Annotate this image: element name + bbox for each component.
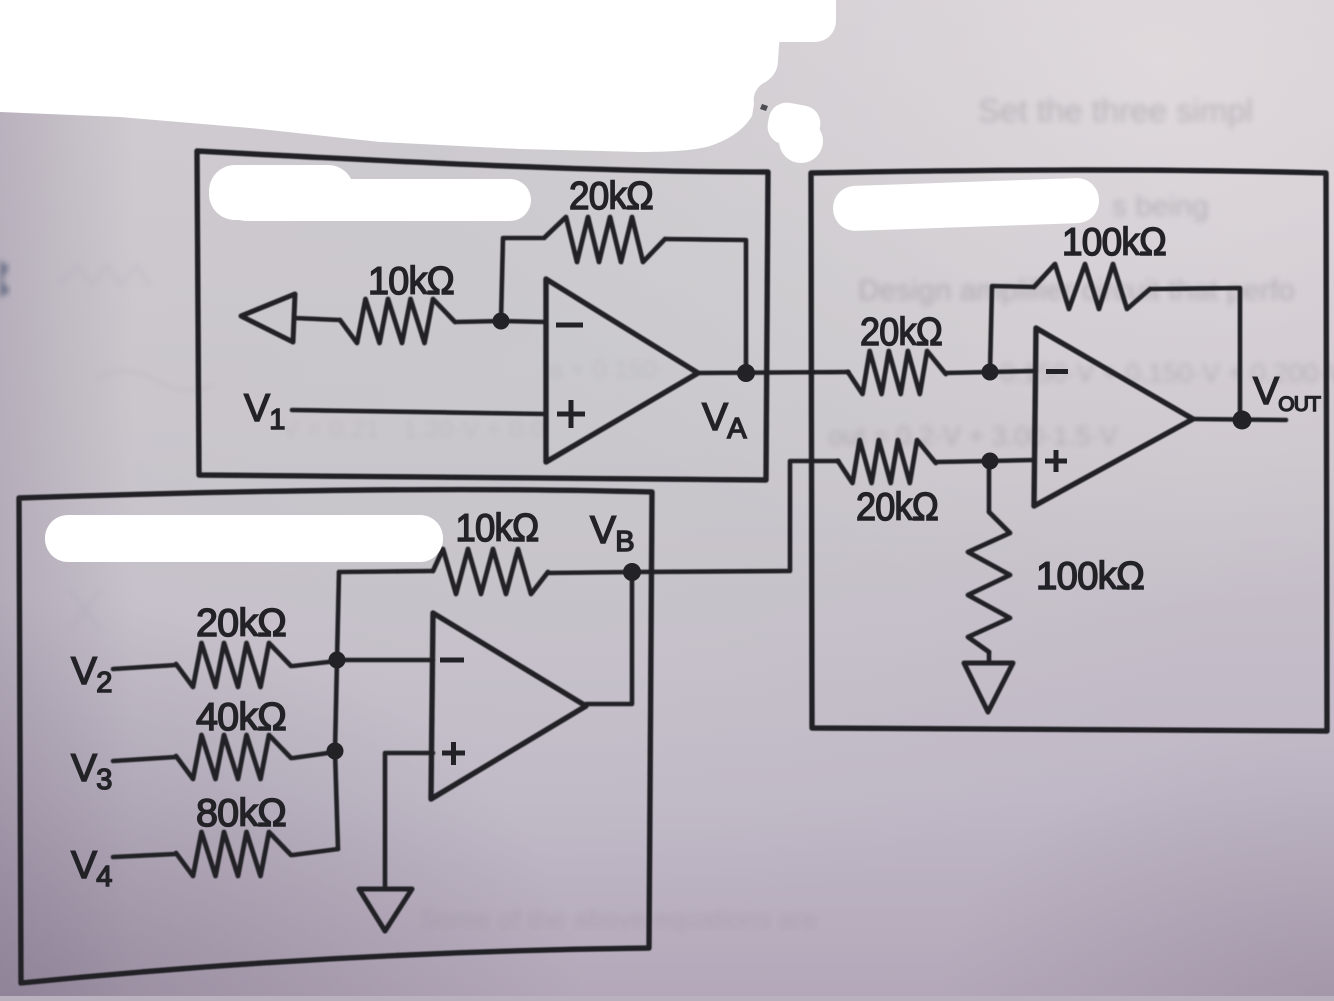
wire plus node down to resistor 100k bbox=[987, 461, 992, 512]
ground symbol B bbox=[359, 889, 412, 931]
node V3 junction bbox=[327, 743, 344, 760]
summing bus vertical wire bbox=[335, 572, 339, 849]
wire feedback riser A bbox=[501, 238, 542, 321]
subcircuit box A border bbox=[197, 151, 768, 480]
resistor 10k feedback B bbox=[433, 549, 548, 594]
wire plus node C to op-amp bbox=[990, 460, 1034, 461]
node VB junction dot bbox=[623, 563, 641, 581]
wire 100k to ground C bbox=[987, 652, 992, 661]
resistor 10k (box A input) bbox=[340, 299, 455, 343]
svg-text:20kΩ: 20kΩ bbox=[196, 602, 286, 645]
wire V3 lead bbox=[113, 757, 176, 761]
wire V2 lead bbox=[113, 665, 176, 669]
wire feedback B left bbox=[339, 571, 433, 572]
wire node A to op-amp minus bbox=[501, 321, 546, 322]
resistor 40k (V3 input) bbox=[176, 735, 291, 779]
wire 80k to bus bbox=[293, 849, 338, 855]
wire plus input B to ground bbox=[385, 753, 433, 889]
svg-text:20kΩ: 20kΩ bbox=[860, 311, 942, 354]
wire op-amp A output / node VA to box C resistor bbox=[698, 372, 848, 373]
resistor 20k (VA input, box C) bbox=[848, 351, 946, 394]
wire 10k to node VB bbox=[548, 572, 632, 573]
plus sign op-amp A bbox=[557, 400, 585, 428]
node minus junction C bbox=[982, 364, 999, 381]
wire minus node C to op-amp bbox=[990, 371, 1036, 372]
wire VB out to box C bbox=[632, 461, 838, 572]
wire VB node down to op-amp B output bbox=[586, 572, 632, 704]
svg-text:Set the three simpl: Set the three simpl bbox=[978, 92, 1253, 129]
svg-text:20kΩ: 20kΩ bbox=[856, 486, 938, 529]
svg-text:out = 0.2·V + 3.00·1.5·V: out = 0.2·V + 3.00·1.5·V bbox=[828, 421, 1118, 451]
wire resistor to inverting node A bbox=[455, 321, 501, 322]
svg-text:100kΩ: 100kΩ bbox=[1036, 555, 1144, 598]
svg-text:Some of the above equations ar: Some of the above equations are bbox=[420, 904, 818, 934]
minus sign op-amp A bbox=[556, 323, 583, 328]
wire arrow to resistor 10k bbox=[294, 318, 340, 320]
whiteout label cover box C bbox=[832, 177, 1099, 231]
subcircuit box B border bbox=[19, 490, 652, 983]
wire bus to op-amp B minus bbox=[337, 658, 433, 663]
whiteout blob top bbox=[0, 0, 836, 163]
resistor 80k (V4 input) bbox=[176, 832, 291, 876]
wire V1 to plus input A bbox=[292, 410, 546, 414]
svg-text:80kΩ: 80kΩ bbox=[196, 792, 286, 835]
node V2 junction bbox=[329, 652, 346, 669]
subcircuit box C border bbox=[811, 170, 1327, 731]
ground symbol C bbox=[964, 663, 1013, 712]
svg-text:40kΩ: 40kΩ bbox=[196, 696, 286, 739]
svg-text:10kΩ: 10kΩ bbox=[368, 260, 454, 303]
wire V4 lead bbox=[113, 854, 176, 857]
minus sign op-amp B bbox=[440, 658, 464, 663]
svg-text:s being: s being bbox=[1112, 190, 1209, 223]
svg-text:100kΩ: 100kΩ bbox=[1062, 221, 1166, 264]
resistor 100k feedback C bbox=[1034, 264, 1150, 309]
input terminal arrow (box A) bbox=[241, 294, 295, 342]
plus sign op-amp C bbox=[1045, 450, 1067, 472]
svg-text:a + 0.150·: a + 0.150· bbox=[548, 354, 666, 384]
node plus junction C bbox=[982, 453, 999, 470]
node VOUT junction dot bbox=[1233, 411, 1252, 430]
plus sign op-amp B bbox=[442, 742, 465, 765]
op-amp C bbox=[1034, 328, 1193, 506]
resistor 100k to ground (vertical) bbox=[968, 512, 1010, 652]
svg-text:20kΩ: 20kΩ bbox=[569, 175, 653, 218]
node VA junction dot bbox=[737, 364, 755, 382]
resistor 20k (VB input, box C) bbox=[838, 440, 936, 483]
wire 20k to minus node C bbox=[945, 372, 990, 373]
resistor 20k (V2 input) bbox=[176, 643, 291, 687]
wire feedback riser C bbox=[990, 286, 1034, 372]
wire 40k to node V3 bbox=[293, 752, 335, 758]
wire feedback top to output C bbox=[1150, 288, 1240, 420]
resistor 20k feedback A bbox=[544, 217, 665, 262]
junction node A inverting bbox=[493, 313, 510, 330]
wire 20k to summing node bbox=[293, 661, 337, 666]
minus sign op-amp C bbox=[1046, 369, 1068, 374]
wire op-amp C output VOUT bbox=[1193, 419, 1286, 420]
wire feedback top to output A bbox=[665, 239, 746, 371]
svg-text:10kΩ: 10kΩ bbox=[456, 507, 539, 550]
wire 20k to plus node C bbox=[935, 461, 990, 462]
svg-text:V = 0.21 · 1.20·V + 0.0: V = 0.21 · 1.20·V + 0.0 bbox=[282, 414, 545, 444]
op-amp B bbox=[431, 613, 586, 799]
whiteout label cover box B bbox=[45, 515, 443, 562]
whiteout label cover box A bbox=[209, 165, 531, 221]
op-amp A bbox=[546, 279, 698, 462]
